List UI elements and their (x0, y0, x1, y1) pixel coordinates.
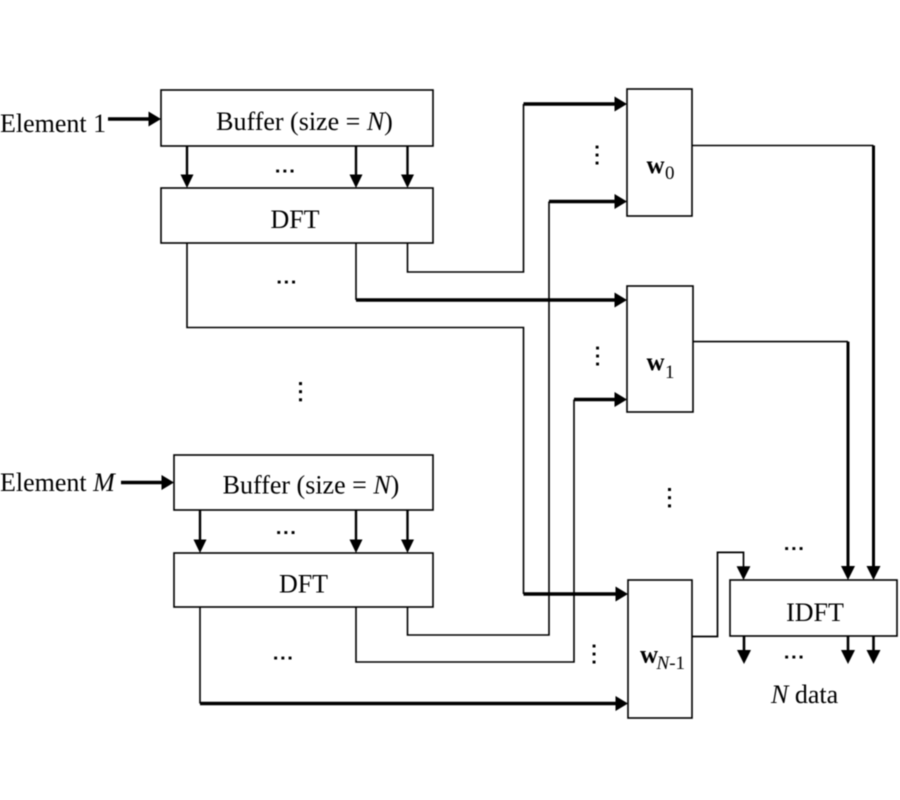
arrow Buffer2 to DFT2 right (401, 510, 414, 553)
arrow Element M into Buffer 2 (121, 475, 174, 490)
svg-text:Element M: Element M (0, 468, 116, 497)
svg-text:DFT: DFT (279, 570, 328, 599)
wire w1 output vertical thick into IDFT (841, 342, 855, 580)
box DFT 1 (161, 188, 433, 243)
box DFT 2 (174, 553, 433, 607)
arrow IDFT output left (737, 636, 751, 664)
box Buffer 2 (174, 455, 433, 510)
svg-text:w: w (640, 642, 658, 669)
arrow Buffer2 to DFT2 middle (350, 510, 363, 553)
vertical dots left of w0 (596, 146, 599, 165)
arrow into w0 bottom (549, 194, 627, 209)
svg-text:Buffer (size = N): Buffer (size = N) (216, 107, 393, 136)
svg-text:w: w (647, 349, 665, 376)
wire w1 output horizontal (693, 341, 848, 343)
vertical dots between elements (299, 382, 302, 401)
box w1 (627, 286, 693, 412)
dots below DFT1 (278, 281, 295, 284)
wire DFT1 bin1 stub (net F) (355, 243, 357, 300)
svg-text:Buffer (size = N): Buffer (size = N) (223, 471, 400, 500)
arrow Buffer1 to DFT1 middle (350, 146, 363, 188)
wire DFT1 bin0 to w0 (net A) (408, 104, 524, 272)
wire DFT2 bin1 to w1 (net D) (356, 400, 574, 663)
svg-text:Element 1: Element 1 (0, 109, 106, 138)
wire wN-1 output jog (692, 552, 744, 636)
svg-text:N-1: N-1 (656, 653, 686, 674)
box IDFT (730, 580, 897, 636)
dots between Buffer1 arrows (276, 170, 293, 173)
arrow Buffer2 to DFT2 left (194, 510, 207, 553)
wire w0 output vertical thick into IDFT (867, 146, 881, 581)
arrow IDFT output right (867, 636, 881, 664)
dots between Buffer2 arrows (277, 531, 294, 534)
arrow into wN-1 bottom (200, 696, 628, 711)
svg-text:IDFT: IDFT (786, 598, 844, 627)
vertical dots left of w1 (596, 347, 599, 366)
arrow wN-1 output into IDFT top (737, 566, 751, 580)
arrow Buffer1 to DFT1 left (181, 146, 194, 188)
box w0 (627, 89, 692, 216)
wire DFT1 binN-1 to wN-1 (net B) (187, 243, 524, 594)
vertical dots between w1 and wN-1 (668, 488, 671, 507)
wire w0 output horizontal (692, 145, 874, 147)
box Buffer 1 (161, 90, 433, 146)
arrow into w1 top (356, 293, 627, 308)
arrow Element 1 into Buffer 1 (108, 112, 161, 127)
svg-text:0: 0 (665, 163, 675, 184)
arrow Buffer1 to DFT1 right (401, 146, 414, 188)
dots above IDFT (785, 547, 802, 550)
svg-text:DFT: DFT (270, 205, 319, 234)
arrow into w0 top (524, 97, 628, 112)
wire DFT2 bin0 to w0 (net C) (408, 202, 550, 636)
svg-text:1: 1 (665, 362, 675, 383)
svg-text:N data: N data (770, 680, 839, 709)
svg-text:w: w (647, 152, 665, 179)
vertical dots left of wN-1 (593, 645, 596, 664)
arrow into w1 bottom (574, 392, 627, 407)
wire DFT2 binN-1 stub (net E) (199, 607, 201, 704)
dots below DFT2 (274, 657, 291, 660)
dots below IDFT (785, 656, 802, 659)
box wN-1 (628, 580, 692, 718)
arrow into wN-1 top (524, 587, 629, 602)
arrow IDFT output middle (841, 636, 855, 664)
